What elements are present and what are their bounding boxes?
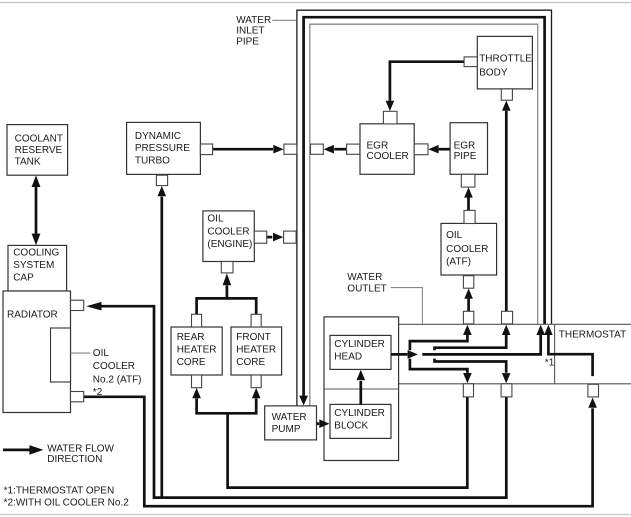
wire water outlet main to pipe <box>422 325 545 355</box>
wire cylinder head outlet arrow <box>391 350 418 359</box>
connector thermostat top B <box>502 311 513 324</box>
wire heater bottom U <box>192 388 260 413</box>
svg-text:HEAD: HEAD <box>334 351 362 362</box>
svg-text:WATER: WATER <box>236 15 271 26</box>
svg-text:COOLER: COOLER <box>446 244 488 255</box>
wire turbo to pipe <box>213 145 284 154</box>
box water pump <box>265 406 317 440</box>
box EGR pipe <box>450 123 487 175</box>
svg-text:COOLER: COOLER <box>207 226 249 237</box>
svg-text:DYNAMIC: DYNAMIC <box>135 131 181 142</box>
legend water flow arrow <box>3 445 43 455</box>
connector EGR cooler right <box>414 144 428 155</box>
svg-text:*2:WITH OIL COOLER No.2: *2:WITH OIL COOLER No.2 <box>4 497 130 508</box>
svg-text:PIPE: PIPE <box>454 151 477 162</box>
svg-text:RESERVE: RESERVE <box>15 145 63 156</box>
label WATER INLET PIPE <box>236 15 271 47</box>
thermostat band top line <box>399 323 631 325</box>
svg-text:OUTLET: OUTLET <box>347 284 386 295</box>
wire EGR cooler to pipe <box>324 145 347 154</box>
svg-text:OIL: OIL <box>446 230 463 241</box>
wire bracket to oil cooler ATF port <box>410 325 472 351</box>
svg-text:THROTTLE: THROTTLE <box>479 54 532 65</box>
svg-text:PUMP: PUMP <box>272 424 301 435</box>
svg-text:EGR: EGR <box>454 141 476 152</box>
box dynamic pressure turbo <box>127 122 201 174</box>
svg-text:PIPE: PIPE <box>236 36 259 47</box>
svg-text:HEATER: HEATER <box>177 345 217 356</box>
connector pipe left upper <box>284 144 297 154</box>
svg-text:CYLINDER: CYLINDER <box>334 339 385 350</box>
svg-text:TURBO: TURBO <box>135 155 170 166</box>
thermostat band bottom line <box>399 383 631 385</box>
svg-text:COOLANT: COOLANT <box>15 134 63 145</box>
connector turbo bottom <box>156 175 167 185</box>
svg-text:COOLING: COOLING <box>13 248 59 259</box>
wire U-turn to throttle feed port <box>435 325 511 351</box>
connector ATF bottom <box>463 276 473 289</box>
wire throttle body to EGR cooler <box>386 62 465 111</box>
box rear heater core <box>171 327 222 375</box>
box oil cooler (engine) <box>203 211 254 262</box>
svg-text:THERMOSTAT: THERMOSTAT <box>559 330 626 341</box>
svg-text:PRESSURE: PRESSURE <box>135 143 190 154</box>
pointer: oil cooler No.2 label line <box>71 352 91 354</box>
svg-text:CAP: CAP <box>13 273 34 284</box>
page bottom border <box>0 514 631 516</box>
wire thermostat to throttle body <box>502 101 511 312</box>
svg-text:INLET: INLET <box>236 25 264 36</box>
page top border <box>0 2 631 4</box>
connector front heater bottom <box>251 375 261 388</box>
connector pipe left lower <box>284 231 297 243</box>
box cooling system cap <box>8 245 67 291</box>
radiator oil cooler No.2 inner rect <box>51 328 71 382</box>
svg-text:HEATER: HEATER <box>236 345 276 356</box>
box coolant reserve tank <box>7 125 68 176</box>
svg-text:COOLER: COOLER <box>93 361 135 372</box>
wire oil cooler ATF to EGR pipe <box>464 187 473 210</box>
svg-text:BODY: BODY <box>479 68 508 79</box>
svg-text:REAR: REAR <box>177 332 205 343</box>
connector thermostat bottom E <box>588 384 599 397</box>
thermostat divider <box>554 324 556 384</box>
connector oil cooler engine bottom <box>221 262 233 273</box>
connector rear heater bottom <box>192 375 202 388</box>
svg-text:*1: *1 <box>545 357 555 368</box>
svg-text:CORE: CORE <box>177 357 206 368</box>
wire bottom line to turbo <box>158 186 167 498</box>
svg-text:(ATF): (ATF) <box>446 257 471 268</box>
connector turbo right <box>200 144 212 155</box>
connector radiator top right <box>71 300 84 310</box>
connector pipe right <box>311 144 324 154</box>
connector EGR pipe bottom <box>461 174 475 187</box>
box cylinder head <box>330 335 391 369</box>
svg-text:OIL: OIL <box>93 348 110 359</box>
svg-text:WATER: WATER <box>347 272 382 283</box>
wire oil cooler engine to pipe <box>267 233 284 242</box>
svg-text:TANK: TANK <box>15 156 41 167</box>
wire thermostat open path *1 <box>544 325 593 376</box>
box oil cooler (ATF) <box>441 223 497 275</box>
connector radiator bottom right <box>71 392 84 402</box>
wire cylinder block to cylinder head <box>357 370 366 405</box>
label OIL COOLER No.2 (ATF) *2 <box>93 348 142 398</box>
wire EGR pipe to EGR cooler <box>428 145 450 154</box>
svg-text:FRONT: FRONT <box>236 332 270 343</box>
wire thermostat to oil cooler ATF <box>464 288 473 311</box>
wire U-turn to radiator feed port <box>435 359 511 384</box>
water inlet pipe outer wall <box>297 10 552 406</box>
wire heater top U to oil cooler engine <box>197 273 257 314</box>
wire thermostat D to radiator top <box>86 302 506 498</box>
connector ATF top <box>464 210 475 223</box>
svg-text:DIRECTION: DIRECTION <box>47 454 102 465</box>
svg-text:CYLINDER: CYLINDER <box>334 408 385 419</box>
connector throttle bottom <box>501 89 512 100</box>
box throttle body <box>477 36 532 89</box>
connector thermostat bottom D <box>501 384 512 397</box>
svg-text:COOLER: COOLER <box>367 151 409 162</box>
box front heater core <box>231 327 282 375</box>
engine outer box <box>324 317 399 461</box>
wire thermostat C to heater bottom <box>228 397 468 488</box>
svg-text:BLOCK: BLOCK <box>334 420 368 431</box>
svg-text:(ENGINE): (ENGINE) <box>207 239 252 250</box>
svg-text:*1:THERMOSTAT OPEN: *1:THERMOSTAT OPEN <box>4 485 115 496</box>
svg-text:WATER FLOW: WATER FLOW <box>47 444 114 455</box>
connector thermostat top A <box>463 311 473 324</box>
svg-text:EGR: EGR <box>367 141 389 152</box>
connector rear heater top <box>192 314 202 327</box>
connector front heater top <box>251 314 261 327</box>
water inlet pipe inner wall (gray) <box>310 24 538 406</box>
label WATER OUTLET <box>347 272 386 294</box>
pointer: water outlet label line <box>391 288 423 324</box>
wire water pump to cylinder block <box>317 419 330 428</box>
wire radiator bottom to thermostat <box>84 397 597 506</box>
connector EGR cooler top <box>383 111 397 124</box>
box radiator <box>3 291 71 413</box>
connector oil cooler engine right <box>254 231 266 243</box>
connector thermostat bottom C <box>463 384 473 397</box>
label WATER FLOW DIRECTION <box>47 444 114 465</box>
connector throttle left <box>464 57 477 67</box>
wire tank-cap double arrow <box>32 175 41 245</box>
pointer: water inlet pipe label line <box>272 19 296 21</box>
engine box divider <box>324 388 399 390</box>
wire bracket to heater feed port <box>410 359 472 384</box>
svg-text:RADIATOR: RADIATOR <box>7 309 58 320</box>
arrow into water pump <box>299 396 308 406</box>
svg-text:No.2 (ATF): No.2 (ATF) <box>93 375 142 386</box>
svg-text:CORE: CORE <box>236 357 265 368</box>
svg-text:OIL: OIL <box>207 213 224 224</box>
box cylinder block <box>330 404 391 438</box>
connector EGR cooler left <box>347 144 360 154</box>
water inlet pipe center flow line (thick) <box>304 17 545 396</box>
svg-text:SYSTEM: SYSTEM <box>13 260 54 271</box>
svg-text:WATER: WATER <box>272 412 307 423</box>
box EGR cooler <box>360 124 414 175</box>
